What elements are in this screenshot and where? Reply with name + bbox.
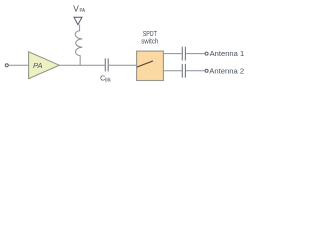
wire C1 to antenna port 1 bbox=[186, 53, 205, 55]
wire C2 to antenna port 2 bbox=[186, 70, 205, 72]
svg-text:Antenna 1: Antenna 1 bbox=[210, 49, 245, 58]
capacitor C2 plates bbox=[181, 64, 183, 78]
SPDT switch box U1 bbox=[137, 51, 164, 80]
wire switch to C1 (top branch) bbox=[164, 53, 182, 55]
svg-text:PA: PA bbox=[33, 61, 42, 70]
svg-text:PA: PA bbox=[80, 8, 86, 14]
wire PA to C_blk bbox=[59, 64, 104, 66]
svg-text:V: V bbox=[73, 4, 79, 14]
svg-text:blk: blk bbox=[105, 78, 111, 84]
wire input to PA bbox=[8, 64, 28, 66]
amplifier PA bbox=[29, 52, 60, 79]
antenna port 1 circle bbox=[205, 52, 208, 55]
wire switch to C2 (bottom branch) bbox=[164, 70, 182, 72]
switch arm bbox=[137, 61, 153, 67]
supply arrow V_PA bbox=[74, 17, 82, 24]
antenna port 2 circle bbox=[205, 69, 208, 72]
capacitor C_blk plates bbox=[104, 58, 106, 71]
inductor L (bias choke) bbox=[75, 25, 82, 66]
input port circle bbox=[5, 64, 8, 67]
svg-text:Antenna 2: Antenna 2 bbox=[209, 66, 244, 75]
wire C_blk to switch bbox=[109, 64, 137, 66]
capacitor C1 plates bbox=[181, 47, 183, 61]
svg-text:switch: switch bbox=[141, 37, 158, 46]
